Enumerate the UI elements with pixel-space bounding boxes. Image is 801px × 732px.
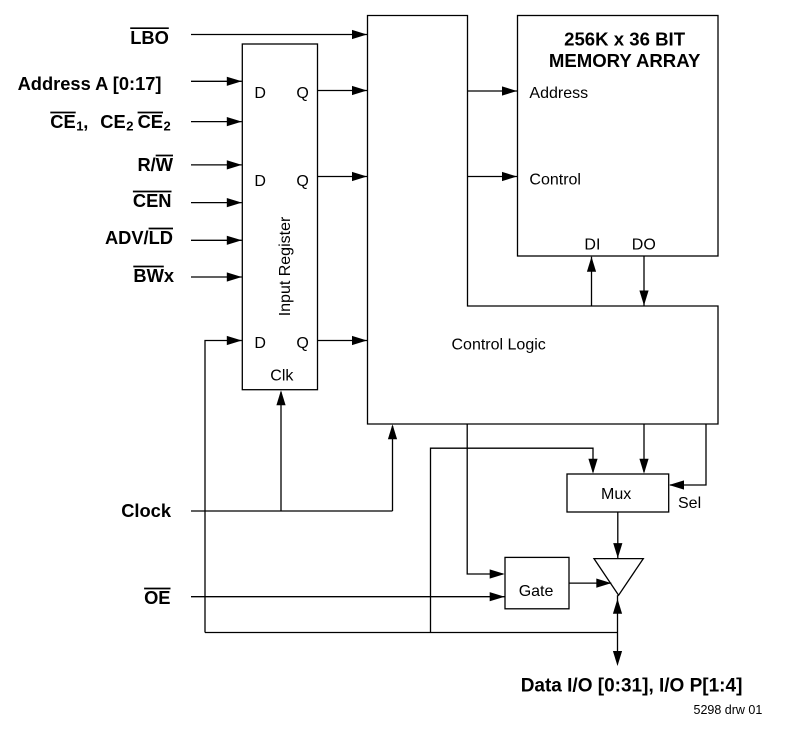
svg-text:Gate: Gate bbox=[519, 583, 554, 600]
memory pin DO bbox=[632, 236, 656, 253]
svg-text:BWx: BWx bbox=[133, 265, 174, 286]
net label Clock bbox=[121, 500, 172, 521]
net label BWx (byte write active low) bbox=[133, 265, 175, 286]
control logic block (L-shape) bbox=[368, 16, 719, 425]
register pin Q row1 bbox=[296, 85, 308, 102]
svg-text:Address: Address bbox=[529, 85, 588, 102]
svg-text:CEN: CEN bbox=[133, 190, 172, 211]
register pin Q row2 bbox=[296, 173, 308, 190]
svg-text:ADV/LD: ADV/LD bbox=[105, 227, 173, 248]
wire data I/O down to pads bbox=[613, 633, 622, 667]
svg-text:R/W: R/W bbox=[137, 154, 173, 175]
mux title bbox=[601, 486, 631, 503]
wire DI into memory bbox=[587, 257, 596, 306]
register pin D row3 bbox=[254, 335, 266, 352]
register pin D row1 bbox=[254, 85, 266, 102]
wire DO to control logic bbox=[639, 256, 648, 306]
memory pin DI bbox=[584, 236, 600, 253]
svg-text:2: 2 bbox=[164, 119, 171, 134]
svg-text:DO: DO bbox=[632, 236, 656, 253]
net label Address A [0:17] bbox=[18, 73, 162, 94]
net label LBO (active low) bbox=[130, 27, 169, 48]
net label R/W (write active low) bbox=[137, 154, 173, 175]
svg-text:Mux: Mux bbox=[601, 486, 631, 503]
input register block bbox=[242, 44, 317, 390]
drawing number 5298 drw 01 bbox=[694, 703, 763, 717]
svg-text:Address A [0:17]: Address A [0:17] bbox=[18, 73, 162, 94]
svg-text:Input Register: Input Register bbox=[277, 216, 294, 316]
wire CEN to input register bbox=[191, 198, 242, 207]
net label OE (output enable active low) bbox=[144, 587, 170, 608]
net label CE1, CE2 CE2 bbox=[50, 111, 170, 134]
wire OE to gate bbox=[191, 592, 505, 601]
wire mux to output buffer bbox=[613, 512, 622, 558]
wire Address A to input register bbox=[191, 77, 242, 86]
svg-text:5298 drw 01: 5298 drw 01 bbox=[694, 703, 763, 717]
svg-text:Q: Q bbox=[296, 173, 308, 190]
svg-text:DI: DI bbox=[584, 236, 600, 253]
svg-text:D: D bbox=[254, 85, 266, 102]
gate block bbox=[505, 557, 569, 608]
input register title (rotated) bbox=[277, 216, 294, 316]
wire register Q3 to control logic bbox=[318, 336, 368, 345]
wire register Q2 to control logic bbox=[318, 172, 368, 181]
svg-text:Clk: Clk bbox=[270, 368, 294, 385]
register pin D row2 bbox=[254, 173, 266, 190]
net label Sel bbox=[678, 495, 701, 512]
register pin Clk bbox=[270, 368, 294, 385]
net label CEN (active low) bbox=[133, 190, 172, 211]
wire Clock to register Clk and control logic bbox=[191, 390, 397, 511]
wire control logic to gate enable bbox=[467, 424, 505, 579]
wire R/W to input register bbox=[191, 160, 242, 169]
memory array title bbox=[549, 29, 701, 72]
svg-text:Control: Control bbox=[529, 171, 581, 188]
wire mux select Sel bbox=[669, 424, 706, 490]
wire LBO to control logic bbox=[191, 30, 367, 39]
svg-text:256K x 36 BIT: 256K x 36 BIT bbox=[564, 29, 686, 50]
net label Data I/O bbox=[521, 676, 743, 697]
svg-text:CE: CE bbox=[100, 111, 125, 132]
wire control logic to memory Control bbox=[468, 172, 518, 181]
svg-text:Q: Q bbox=[296, 335, 308, 352]
output buffer triangle bbox=[594, 559, 643, 596]
svg-text:Q: Q bbox=[296, 85, 308, 102]
svg-text:D: D bbox=[254, 335, 266, 352]
memory pin Control bbox=[529, 171, 581, 188]
svg-text:LBO: LBO bbox=[130, 27, 169, 48]
wire BWx to input register bbox=[191, 272, 242, 281]
wire ADV/LD to input register bbox=[191, 236, 242, 245]
wire control logic to mux input bbox=[639, 424, 648, 474]
wire write data feedback to register D input bbox=[205, 336, 242, 633]
wire register Q1 to control logic bbox=[318, 86, 368, 95]
wire control logic to memory Address bbox=[468, 86, 518, 95]
memory array block bbox=[518, 16, 719, 257]
wire data I/O horizontal bus bbox=[205, 632, 618, 634]
svg-text:OE: OE bbox=[144, 587, 170, 608]
svg-text:Clock: Clock bbox=[121, 500, 172, 521]
svg-text:D: D bbox=[254, 173, 266, 190]
svg-text:CE: CE bbox=[138, 111, 163, 132]
wire write data to mux input bbox=[431, 448, 598, 632]
control logic title bbox=[452, 337, 546, 354]
svg-text:2: 2 bbox=[126, 119, 133, 134]
register pin Q row3 bbox=[296, 335, 308, 352]
svg-text:Control Logic: Control Logic bbox=[452, 337, 546, 354]
svg-text:,: , bbox=[83, 111, 88, 132]
net label ADV/LD (load active low) bbox=[105, 227, 173, 248]
wire gate to output buffer bbox=[569, 579, 611, 588]
wire CE to input register bbox=[191, 117, 242, 126]
gate title bbox=[519, 583, 554, 600]
mux block bbox=[567, 474, 669, 512]
svg-text:MEMORY ARRAY: MEMORY ARRAY bbox=[549, 50, 701, 71]
svg-text:Data I/O [0:31], I/O P[1:4]: Data I/O [0:31], I/O P[1:4] bbox=[521, 676, 743, 697]
svg-text:Sel: Sel bbox=[678, 495, 701, 512]
svg-text:CE: CE bbox=[50, 111, 75, 132]
wire data input up into buffer node bbox=[613, 595, 622, 632]
memory pin Address bbox=[529, 85, 588, 102]
